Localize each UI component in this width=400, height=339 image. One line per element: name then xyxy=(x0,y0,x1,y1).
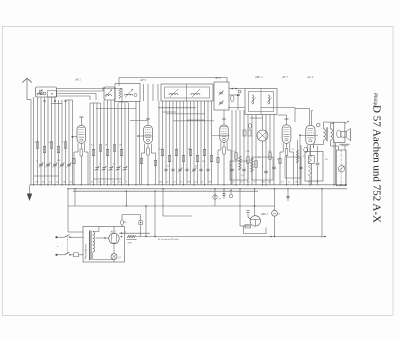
wire right bottom drop xyxy=(239,188,322,237)
svg-text:0,1: 0,1 xyxy=(159,149,162,151)
wire right rails xyxy=(345,150,346,186)
dropper resistor R dropper xyxy=(127,235,137,244)
antenna coil L1 box xyxy=(36,87,57,97)
svg-text:1M: 1M xyxy=(98,182,101,184)
value label texture near bus xyxy=(34,109,319,184)
value labels left xyxy=(35,142,64,163)
bias resistors xyxy=(73,157,281,166)
annotation Zf xyxy=(158,238,179,241)
svg-text:0,1: 0,1 xyxy=(91,145,94,147)
speaker xyxy=(334,121,351,150)
svg-text:5k: 5k xyxy=(195,166,197,168)
tube V6 AL4 xyxy=(299,109,320,185)
svg-text:D 57 Aachen und 752 A-X: D 57 Aachen und 752 A-X xyxy=(370,105,382,223)
power transformer T1 xyxy=(85,227,114,261)
svg-text:0,1: 0,1 xyxy=(281,182,284,184)
svg-text:25: 25 xyxy=(167,166,169,168)
tuning indicator AM2 xyxy=(244,188,269,233)
decoupling capacitors below bus xyxy=(213,188,290,206)
wire mid drops xyxy=(154,188,192,236)
wire bundle: tuning gang left xyxy=(31,97,73,185)
svg-text:0,1: 0,1 xyxy=(49,142,52,144)
svg-text:0,1: 0,1 xyxy=(173,182,176,184)
svg-text:2M: 2M xyxy=(295,182,298,184)
junction dots left bundle xyxy=(33,184,70,185)
wire bottom rail xyxy=(136,236,326,238)
svg-text:AF 2: AF 2 xyxy=(74,78,81,82)
svg-text:AZ 1: AZ 1 xyxy=(110,230,117,233)
IF transformer can 1 xyxy=(115,84,158,102)
misc value labels xyxy=(230,148,328,168)
svg-text:AF 3: AF 3 xyxy=(214,76,221,80)
IF transformer can 2 xyxy=(245,89,277,115)
value labels mixer xyxy=(159,149,205,168)
svg-text:5k: 5k xyxy=(99,164,101,166)
wire coupling top xyxy=(229,89,310,123)
RC box right 1 xyxy=(305,146,323,186)
antenna arrow xyxy=(22,78,31,99)
wire bundle mixer/osc xyxy=(136,101,214,185)
dial lamp xyxy=(272,188,280,236)
svg-text:2: 2 xyxy=(63,142,64,144)
wire PSU drops xyxy=(67,188,274,236)
svg-text:4700: 4700 xyxy=(128,242,132,245)
svg-text:AF 3: AF 3 xyxy=(139,78,146,82)
trimmer box xyxy=(214,82,229,110)
svg-text:2x: 2x xyxy=(125,231,127,233)
trimmer capacitor row (left bundle) xyxy=(39,163,72,168)
tube V3 AF7 xyxy=(212,110,231,186)
wires AF7 stage xyxy=(296,140,303,186)
value labels mid-left xyxy=(91,145,122,166)
svg-text:50: 50 xyxy=(219,199,221,201)
svg-text:1M: 1M xyxy=(119,145,122,147)
components detector area xyxy=(228,88,301,186)
resistor row (left bundle) xyxy=(36,142,66,153)
svg-text:0,5: 0,5 xyxy=(113,164,116,166)
rectifier tube AZ1 xyxy=(96,227,151,244)
value labels detector xyxy=(233,150,272,177)
svg-text:Zf Lissabon 470 kHz: Zf Lissabon 470 kHz xyxy=(158,238,179,241)
wire bundle detector area xyxy=(232,110,274,185)
svg-text:AM 1: AM 1 xyxy=(260,212,268,216)
svg-text:1M: 1M xyxy=(208,182,211,184)
title text: Philips D 57 Aachen und 752 A-X (rotated) xyxy=(370,92,382,223)
mains plug and switch xyxy=(55,235,83,257)
svg-text:AF 7: AF 7 xyxy=(281,75,288,79)
tube V1 AF2 xyxy=(72,78,89,186)
wire top rail xyxy=(119,78,227,87)
wire top feeds from L1 xyxy=(57,87,123,100)
pilot lamp xyxy=(111,244,122,262)
coil L2 box xyxy=(104,87,115,100)
electrolytic capacitors xyxy=(121,215,143,237)
label tube V2 xyxy=(139,78,146,82)
labels ABC1 AF7 AL4 xyxy=(214,75,314,80)
svg-text:AL 4: AL 4 xyxy=(307,75,314,79)
component rows mixer/osc xyxy=(135,149,212,185)
svg-text:6,3: 6,3 xyxy=(278,214,281,216)
ground arrow xyxy=(27,185,32,201)
RC box right 2 (pickup jack) xyxy=(333,140,346,186)
oscillator coil can xyxy=(161,84,213,101)
output transformer xyxy=(314,122,339,148)
tube V5 AF7b xyxy=(278,115,294,186)
svg-text:0,1: 0,1 xyxy=(233,150,236,153)
svg-text:ABC 1: ABC 1 xyxy=(254,75,263,79)
svg-text:2M: 2M xyxy=(187,182,190,184)
component rows mid-left xyxy=(92,145,129,186)
wire bundle mid-left xyxy=(90,88,129,185)
tube V2 AF3 xyxy=(137,84,155,186)
svg-text:25: 25 xyxy=(36,161,38,163)
svg-text:Wechselstrom: Wechselstrom xyxy=(85,243,88,259)
svg-text:0,1: 0,1 xyxy=(49,182,52,184)
chassis bus lines xyxy=(30,185,347,191)
svg-text:0,1: 0,1 xyxy=(303,155,306,158)
svg-text:2M: 2M xyxy=(202,161,205,163)
tube V4 diode xyxy=(257,115,268,186)
svg-text:2M: 2M xyxy=(63,182,66,184)
PSU enclosure box xyxy=(83,227,125,263)
